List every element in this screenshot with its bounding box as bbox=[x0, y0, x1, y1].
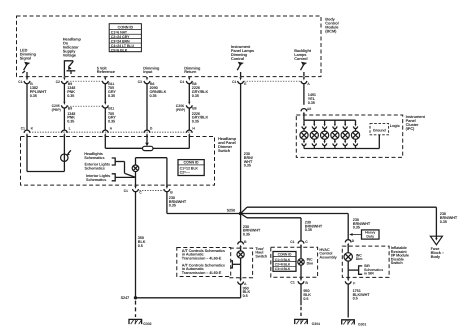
svg-text:Schematics: Schematics bbox=[86, 178, 106, 182]
svg-text:0.35: 0.35 bbox=[244, 164, 251, 168]
svg-text:G301: G301 bbox=[358, 322, 366, 326]
svg-text:Control: Control bbox=[231, 56, 244, 61]
svg-text:0.35: 0.35 bbox=[108, 94, 115, 98]
svg-text:C1: C1 bbox=[232, 80, 236, 84]
svg-text:C1: C1 bbox=[18, 80, 22, 84]
svg-text:in SIR: in SIR bbox=[364, 271, 374, 275]
svg-text:C3: C3 bbox=[138, 80, 142, 84]
svg-text:C4: C4 bbox=[180, 80, 184, 84]
svg-text:0.35: 0.35 bbox=[67, 119, 74, 123]
svg-text:0.35: 0.35 bbox=[150, 94, 157, 98]
svg-text:0.35: 0.35 bbox=[192, 94, 199, 98]
svg-text:0.35: 0.35 bbox=[308, 101, 315, 105]
svg-text:CONN ID: CONN ID bbox=[278, 252, 292, 256]
svg-text:0.5: 0.5 bbox=[353, 297, 358, 301]
svg-text:0.5: 0.5 bbox=[303, 297, 308, 301]
svg-text:Transmission – 4L60-E: Transmission – 4L60-E bbox=[182, 271, 222, 275]
svg-text:Assembly: Assembly bbox=[319, 255, 337, 259]
svg-text:0.35: 0.35 bbox=[305, 228, 312, 232]
svg-text:CONN ID: CONN ID bbox=[183, 161, 198, 165]
svg-text:S247: S247 bbox=[121, 296, 130, 300]
svg-text:Logic: Logic bbox=[390, 123, 401, 128]
svg-text:C1: C1 bbox=[21, 127, 25, 131]
svg-text:Voltage: Voltage bbox=[63, 52, 77, 57]
svg-text:S250: S250 bbox=[227, 209, 236, 213]
svg-text:Ground: Ground bbox=[373, 128, 387, 132]
svg-text:Schematics: Schematics bbox=[85, 167, 105, 171]
svg-text:G304: G304 bbox=[312, 322, 320, 326]
svg-text:0.5: 0.5 bbox=[138, 244, 143, 248]
svg-text:(BCM): (BCM) bbox=[325, 28, 337, 33]
svg-text:C3=4 BLK: C3=4 BLK bbox=[275, 267, 291, 271]
svg-text:(IPC): (IPC) bbox=[406, 126, 415, 131]
svg-text:0.35: 0.35 bbox=[440, 220, 447, 224]
svg-text:C2: C2 bbox=[56, 80, 60, 84]
svg-text:C1=3 BLK: C1=3 BLK bbox=[275, 258, 291, 262]
svg-text:C2=8 BLK: C2=8 BLK bbox=[275, 263, 291, 267]
svg-text:B9: B9 bbox=[68, 107, 72, 111]
svg-text:B11: B11 bbox=[108, 107, 114, 111]
svg-text:Dim: Dim bbox=[356, 257, 363, 261]
svg-text:(PRP): (PRP) bbox=[52, 108, 61, 112]
svg-text:C1: C1 bbox=[290, 280, 294, 284]
svg-text:B8: B8 bbox=[192, 107, 196, 111]
svg-text:0.35: 0.35 bbox=[243, 232, 250, 236]
svg-text:0.35: 0.35 bbox=[353, 226, 360, 230]
svg-text:Control: Control bbox=[294, 56, 307, 61]
svg-text:0.35: 0.35 bbox=[169, 204, 176, 208]
svg-text:(PRP): (PRP) bbox=[176, 108, 185, 112]
svg-text:Transmission – 4L60-E: Transmission – 4L60-E bbox=[182, 256, 222, 260]
svg-text:Duty: Duty bbox=[366, 235, 374, 239]
svg-text:Switch: Switch bbox=[391, 261, 404, 265]
svg-text:C2=––: C2=–– bbox=[180, 171, 190, 175]
svg-text:C5=6 BLK: C5=6 BLK bbox=[111, 48, 128, 52]
svg-text:Switch: Switch bbox=[218, 148, 231, 153]
svg-text:Signal: Signal bbox=[20, 55, 31, 60]
svg-text:C1: C1 bbox=[124, 189, 128, 193]
svg-text:0.35: 0.35 bbox=[108, 119, 115, 123]
svg-text:Schematics: Schematics bbox=[84, 156, 104, 160]
svg-text:CONN ID: CONN ID bbox=[118, 25, 134, 29]
svg-text:Body: Body bbox=[431, 254, 441, 259]
svg-text:Switch: Switch bbox=[255, 254, 268, 258]
svg-text:0.5: 0.5 bbox=[243, 294, 248, 298]
svg-text:Return: Return bbox=[184, 69, 197, 74]
svg-text:0.35: 0.35 bbox=[30, 94, 37, 98]
svg-text:C1: C1 bbox=[290, 240, 294, 244]
svg-text:Dim: Dim bbox=[307, 261, 314, 265]
svg-text:0.35: 0.35 bbox=[67, 94, 74, 98]
svg-text:Reference: Reference bbox=[97, 69, 116, 74]
svg-text:G: G bbox=[150, 127, 153, 131]
svg-text:Input: Input bbox=[143, 69, 153, 74]
svg-text:G302: G302 bbox=[143, 322, 151, 326]
svg-text:0.35: 0.35 bbox=[192, 119, 199, 123]
svg-text:A8: A8 bbox=[307, 107, 311, 111]
